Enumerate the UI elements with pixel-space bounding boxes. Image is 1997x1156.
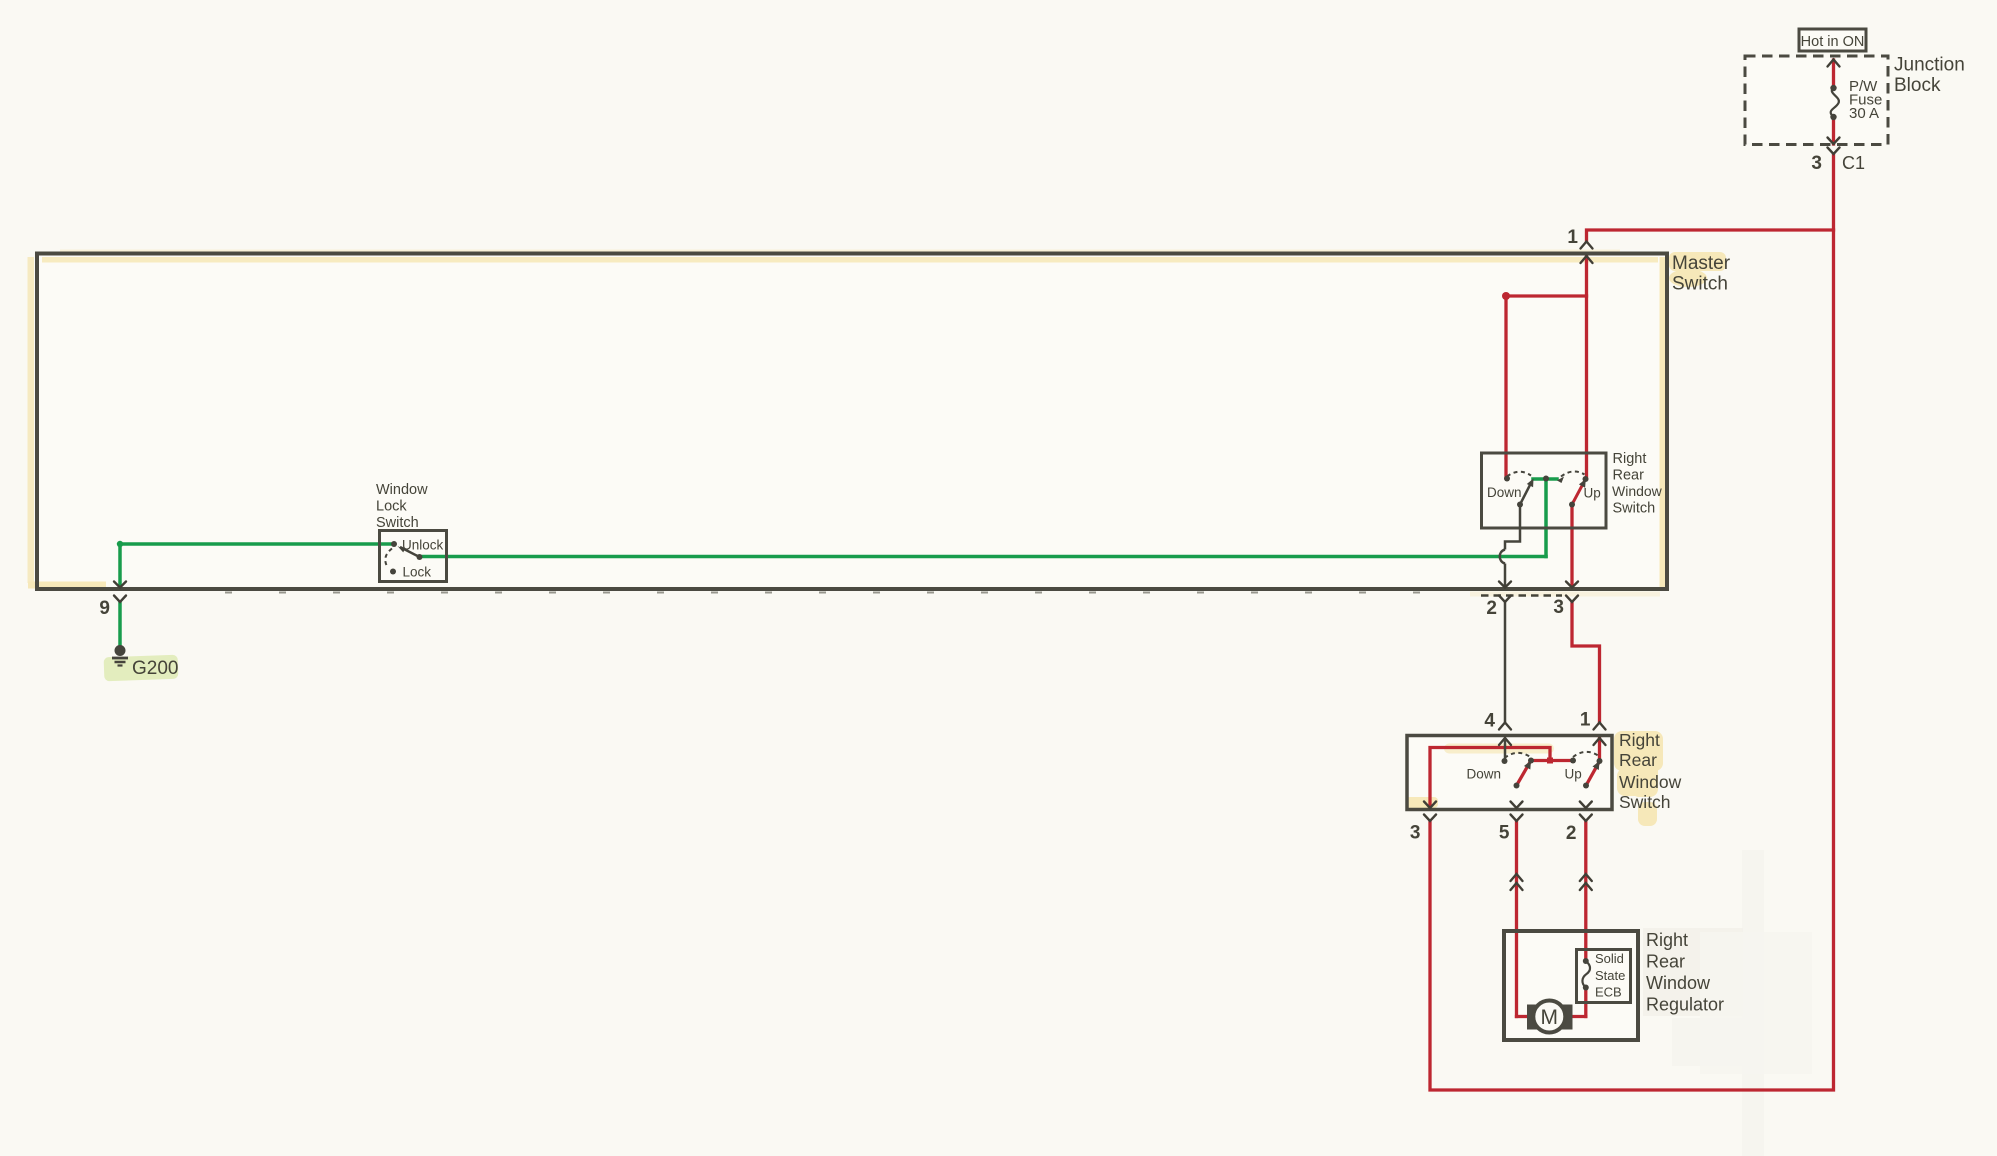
svg-text:Lock: Lock (376, 499, 407, 515)
svg-text:Regulator: Regulator (1646, 995, 1724, 1015)
svg-text:C1: C1 (1842, 153, 1865, 173)
svg-text:2: 2 (1566, 823, 1577, 844)
svg-text:Up: Up (1584, 486, 1601, 501)
svg-text:Window: Window (1612, 483, 1663, 499)
svg-text:Solid: Solid (1595, 951, 1624, 966)
svg-text:Switch: Switch (376, 515, 419, 531)
svg-text:Rear: Rear (1646, 952, 1685, 972)
svg-text:3: 3 (1553, 597, 1564, 618)
svg-text:M: M (1541, 1006, 1559, 1029)
svg-text:3: 3 (1811, 153, 1822, 174)
svg-text:G200: G200 (132, 658, 178, 679)
svg-text:Down: Down (1467, 767, 1502, 782)
svg-text:Right: Right (1613, 451, 1647, 467)
svg-text:Down: Down (1487, 485, 1522, 500)
svg-text:Up: Up (1565, 767, 1582, 782)
svg-text:Junction: Junction (1894, 55, 1965, 76)
svg-text:State: State (1595, 968, 1625, 983)
svg-text:Window: Window (1619, 772, 1682, 792)
svg-text:Switch: Switch (1613, 501, 1656, 517)
svg-text:ECB: ECB (1595, 985, 1622, 1000)
svg-text:Lock: Lock (403, 565, 432, 580)
svg-text:30 A: 30 A (1849, 105, 1879, 122)
svg-text:Master: Master (1672, 253, 1731, 274)
svg-text:1: 1 (1580, 710, 1591, 731)
svg-text:2: 2 (1486, 598, 1497, 619)
svg-text:9: 9 (99, 598, 110, 619)
svg-text:Right: Right (1646, 930, 1688, 950)
svg-text:Window: Window (1646, 973, 1711, 993)
svg-text:5: 5 (1499, 823, 1510, 844)
svg-text:Rear: Rear (1613, 468, 1645, 484)
svg-text:3: 3 (1410, 823, 1421, 844)
svg-text:1: 1 (1567, 227, 1578, 248)
svg-text:4: 4 (1484, 711, 1495, 732)
svg-text:Block: Block (1894, 75, 1941, 96)
svg-text:Switch: Switch (1672, 274, 1728, 295)
svg-text:Switch: Switch (1619, 792, 1671, 812)
svg-text:Right: Right (1619, 730, 1660, 750)
svg-text:Window: Window (376, 482, 428, 498)
svg-text:Rear: Rear (1619, 750, 1657, 770)
svg-text:Hot in ON: Hot in ON (1801, 34, 1865, 50)
